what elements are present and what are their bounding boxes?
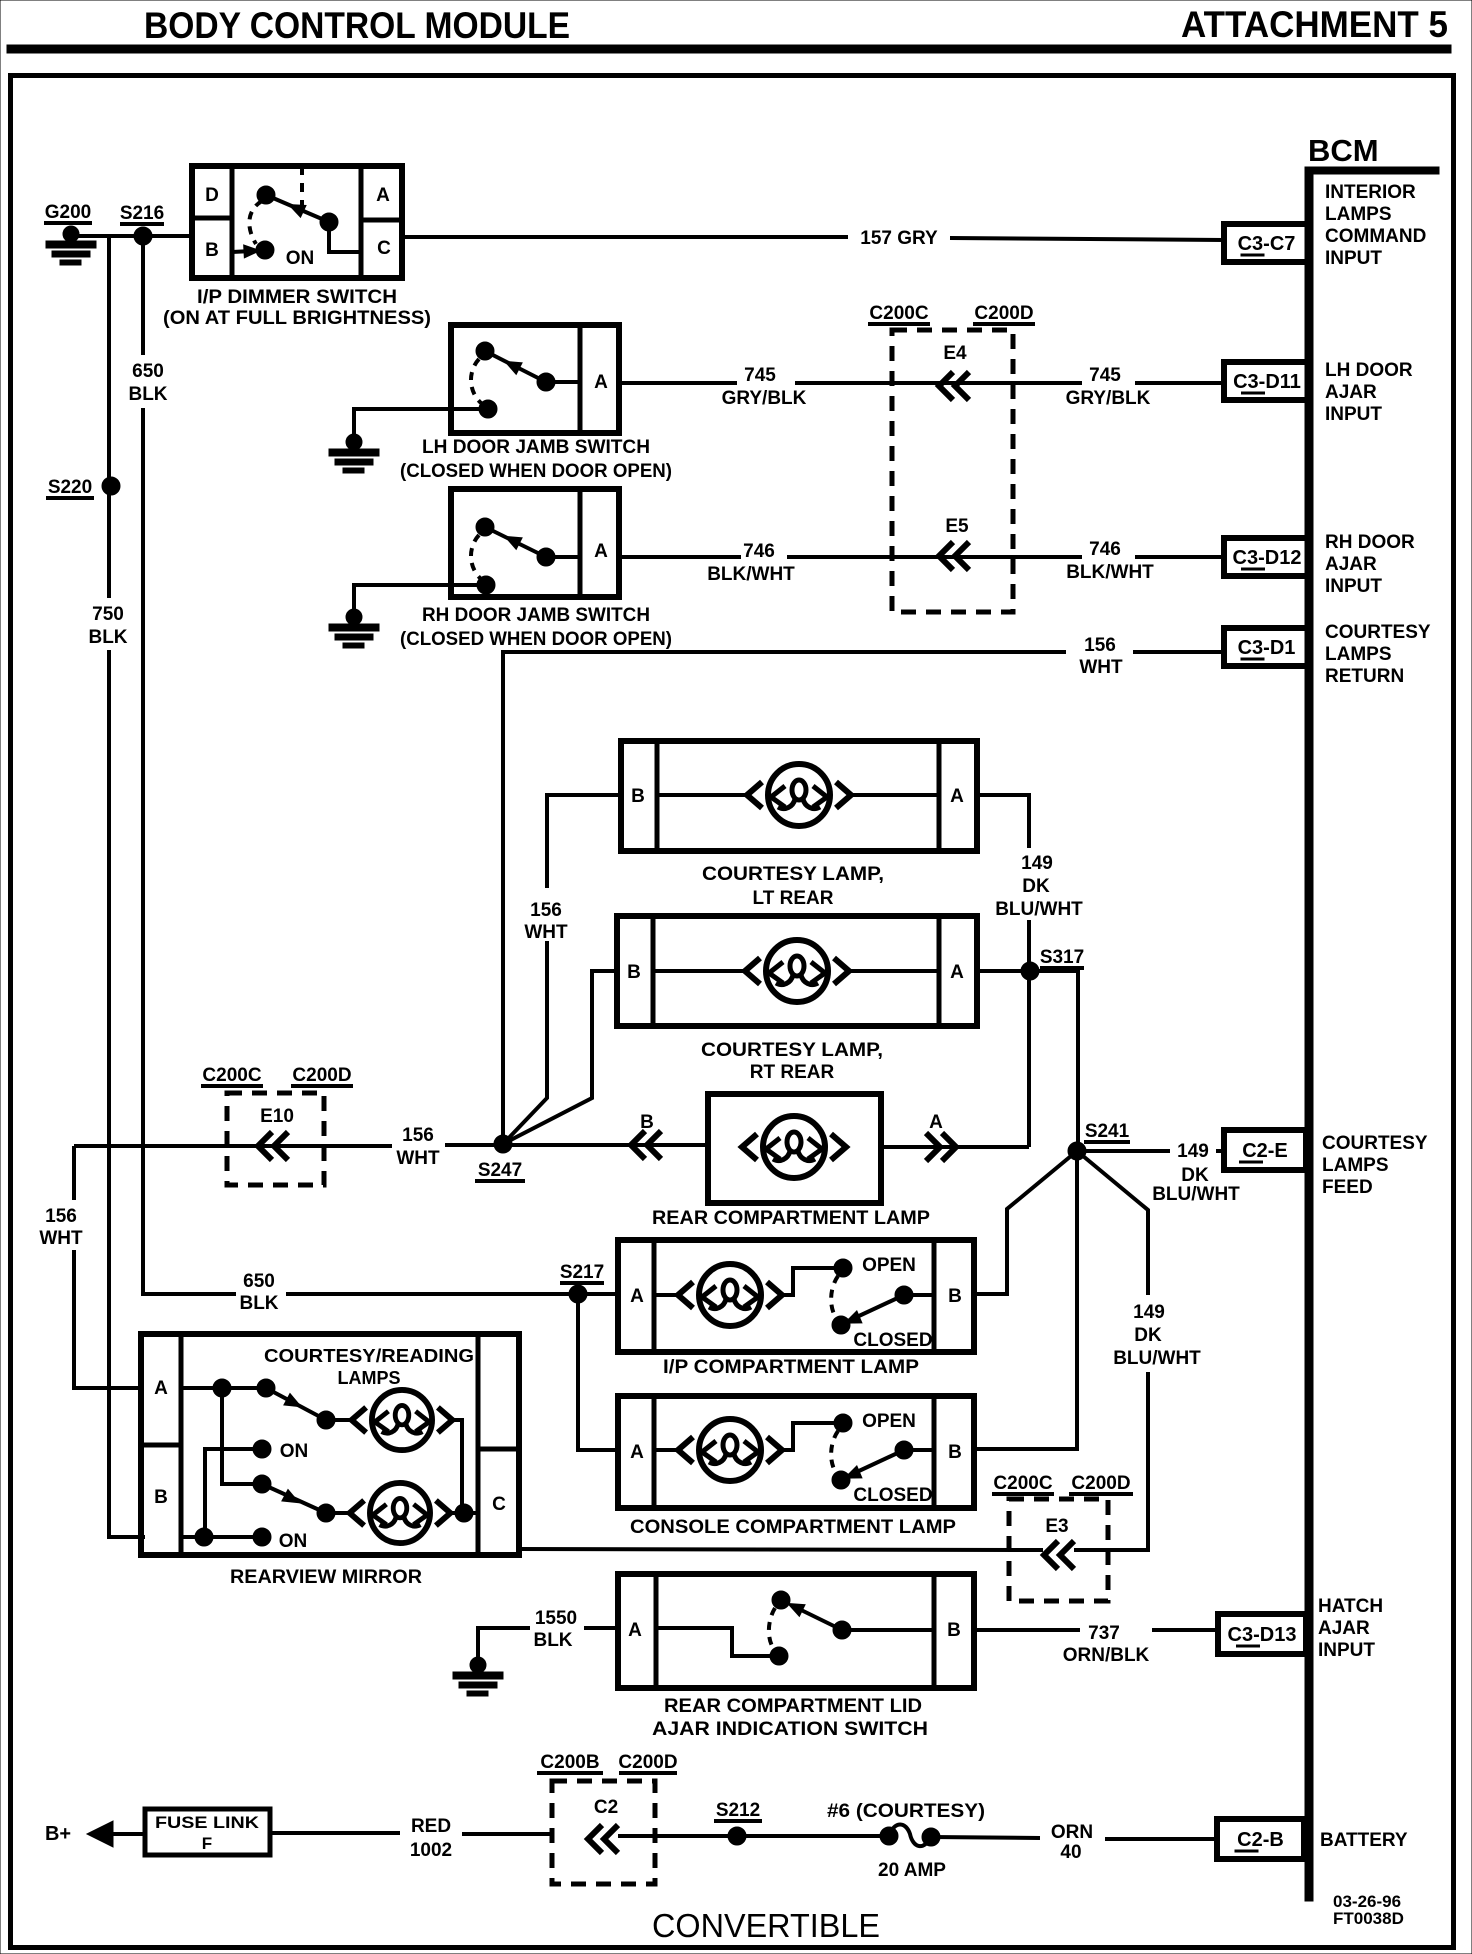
svg-text:ON: ON [279,1531,308,1552]
connector C3-D11 [1224,362,1310,400]
node S217 [569,1285,587,1303]
svg-text:WHT: WHT [1079,657,1123,678]
svg-text:C: C [377,238,391,259]
svg-text:HATCH: HATCH [1318,1596,1383,1617]
mirror internal wiring [181,1386,266,1390]
RH switch ground wire [354,585,486,610]
svg-text:C200D: C200D [618,1752,677,1773]
ground (RH door jamb) [329,609,379,648]
svg-text:ORN/BLK: ORN/BLK [1063,1645,1150,1666]
svg-text:RED: RED [411,1816,451,1837]
I/P dimmer switch [192,166,402,278]
svg-text:C2-E: C2-E [1242,1140,1288,1162]
svg-text:S317: S317 [1040,947,1084,968]
wire rear lamp A to S317 [881,1145,1029,1149]
svg-text:156: 156 [402,1125,434,1146]
wire 750 BLK vertical [107,236,111,598]
upper mirror lamp [352,1390,453,1450]
wire 650 BLK vertical [141,236,145,355]
fuse #6 (COURTESY) 20 AMP [880,1827,898,1845]
svg-text:(CLOSED WHEN DOOR OPEN): (CLOSED WHEN DOOR OPEN) [400,629,672,650]
svg-text:WHT: WHT [39,1228,83,1249]
wire 157 GRY to C3-C7 [402,235,848,239]
wire C2 to S212 [618,1834,737,1838]
connector C3-C7 [1224,224,1309,262]
wire B+ to fuse link [113,1832,145,1836]
svg-text:BLU/WHT: BLU/WHT [1152,1184,1240,1205]
wire console A to S217 [578,1294,618,1450]
svg-text:E4: E4 [943,343,967,364]
svg-text:C200C: C200C [993,1473,1052,1494]
svg-text:C2-B: C2-B [1237,1829,1284,1851]
svg-text:CONSOLE COMPARTMENT LAMP: CONSOLE COMPARTMENT LAMP [630,1517,956,1538]
svg-text:745: 745 [1089,365,1121,386]
svg-text:C200B: C200B [540,1752,599,1773]
connector C3-D12 [1224,538,1310,576]
svg-text:C3-C7: C3-C7 [1238,233,1296,255]
svg-text:C3-D1: C3-D1 [1238,637,1296,659]
arrow to B+ [87,1821,113,1847]
svg-text:REARVIEW MIRROR: REARVIEW MIRROR [230,1567,422,1588]
svg-text:(CLOSED WHEN DOOR OPEN): (CLOSED WHEN DOOR OPEN) [400,461,672,482]
svg-text:BLK: BLK [88,627,127,648]
connector C3-D13 [1218,1614,1306,1654]
lamp switch [784,1423,837,1450]
svg-text:INPUT: INPUT [1325,248,1382,269]
svg-text:GRY/BLK: GRY/BLK [1066,388,1151,409]
svg-text:S212: S212 [716,1800,760,1821]
connector C3-D1 [1224,628,1309,666]
svg-text:FUSE LINK: FUSE LINK [155,1813,260,1832]
wire RT rear B to S247 [503,971,617,1144]
ground (lid switch) [453,1657,503,1696]
svg-text:156: 156 [45,1206,77,1227]
svg-text:40: 40 [1060,1842,1081,1863]
svg-text:OPEN: OPEN [862,1411,916,1432]
svg-text:B: B [154,1487,168,1508]
wire 746 BLK/WHT [619,555,741,559]
wire 745 GRY/BLK [619,381,737,385]
svg-text:BLK/WHT: BLK/WHT [707,564,795,585]
svg-text:C200D: C200D [974,303,1033,324]
svg-text:LAMPS: LAMPS [338,1368,401,1388]
svg-text:LAMPS: LAMPS [1325,644,1392,665]
svg-text:S216: S216 [120,203,164,224]
svg-text:COMMAND: COMMAND [1325,226,1426,247]
svg-text:A: A [630,1286,644,1307]
wire 156 WHT main run [74,1144,392,1148]
svg-text:REAR COMPARTMENT LID: REAR COMPARTMENT LID [664,1696,922,1717]
svg-text:ON: ON [280,1441,309,1462]
svg-text:C: C [492,1494,506,1515]
wire S241 to I/P lamp B [974,1151,1077,1294]
svg-text:S220: S220 [48,477,92,498]
wire 1550 BLK to ground [584,1626,618,1630]
svg-text:B: B [948,1442,962,1463]
svg-text:INPUT: INPUT [1325,404,1382,425]
courtesy lamp LT rear [621,741,977,851]
LH door jamb switch [451,325,619,433]
switch contacts [656,1628,771,1656]
svg-text:1002: 1002 [410,1840,452,1861]
wire G200 to dimmer switch [71,234,192,238]
wire mirror C to E3 [519,1549,1043,1550]
svg-text:COURTESY LAMP,: COURTESY LAMP, [701,1040,883,1061]
svg-text:ORN: ORN [1051,1822,1093,1843]
node S241 [1068,1142,1086,1160]
wire RED 1002 [270,1831,400,1835]
svg-text:CONVERTIBLE: CONVERTIBLE [652,1907,880,1944]
courtesy lamp RT rear [617,916,977,1026]
lower mirror lamp [350,1483,451,1543]
svg-text:B: B [631,786,645,807]
svg-text:DK: DK [1134,1325,1162,1346]
svg-text:RH DOOR: RH DOOR [1325,532,1415,553]
svg-text:A: A [376,185,390,206]
svg-text:BLK: BLK [239,1293,278,1314]
svg-text:C2: C2 [594,1797,618,1818]
svg-text:I/P COMPARTMENT LAMP: I/P COMPARTMENT LAMP [663,1357,919,1378]
svg-text:B: B [948,1286,962,1307]
lamp symbol [653,969,744,973]
BCM module line [1305,167,1313,1901]
svg-text:B: B [205,240,219,261]
lamp symbol [657,793,746,797]
svg-text:A: A [154,1378,168,1399]
svg-text:B: B [627,962,641,983]
svg-text:C200D: C200D [1071,1473,1130,1494]
svg-text:A: A [630,1442,644,1463]
svg-text:157 GRY: 157 GRY [860,228,938,249]
svg-text:AJAR: AJAR [1325,382,1377,403]
svg-text:BCM: BCM [1308,133,1379,168]
svg-text:650: 650 [132,361,164,382]
wire RT rear A to S241 [977,971,1078,1151]
svg-text:C3-D12: C3-D12 [1233,547,1302,569]
svg-text:A: A [594,541,608,562]
svg-text:156: 156 [530,900,562,921]
svg-text:A: A [628,1620,642,1641]
svg-text:B: B [947,1620,961,1641]
svg-text:746: 746 [1089,539,1121,560]
svg-text:BLK: BLK [533,1630,572,1651]
svg-text:RETURN: RETURN [1325,666,1404,687]
svg-text:A: A [950,786,964,807]
svg-text:AJAR: AJAR [1318,1618,1370,1639]
svg-text:FEED: FEED [1322,1177,1373,1198]
svg-text:C3-D11: C3-D11 [1233,371,1301,393]
node S247 [494,1135,512,1153]
ON contacts [253,1440,271,1458]
svg-text:LH DOOR JAMB SWITCH: LH DOOR JAMB SWITCH [422,437,650,458]
dimmer switch contacts [300,166,304,213]
wire 156 WHT left vertical to mirror A [72,1146,76,1200]
svg-text:I/P DIMMER SWITCH: I/P DIMMER SWITCH [197,287,397,308]
svg-text:RT REAR: RT REAR [750,1062,835,1083]
wire 149 DK BLU/WHT from LT rear A [977,795,1029,848]
svg-text:745: 745 [744,365,776,386]
svg-text:DK: DK [1022,876,1050,897]
connector C2-E [1224,1130,1306,1170]
wire 737 ORN/BLK to C3-D13 [974,1628,1080,1632]
svg-text:650: 650 [243,1271,275,1292]
svg-text:149: 149 [1021,853,1053,874]
svg-text:A: A [929,1112,943,1133]
svg-text:ON: ON [286,248,315,269]
wire 149 to C2-E [1077,1149,1170,1153]
svg-text:WHT: WHT [524,922,568,943]
svg-text:149: 149 [1177,1141,1209,1162]
svg-text:G200: G200 [45,202,91,223]
svg-text:WHT: WHT [396,1148,440,1169]
svg-text:(ON AT FULL BRIGHTNESS): (ON AT FULL BRIGHTNESS) [163,308,431,329]
svg-text:#6 (COURTESY): #6 (COURTESY) [827,1801,985,1822]
svg-text:1550: 1550 [535,1608,577,1629]
svg-text:BLK: BLK [128,384,167,405]
svg-text:ATTACHMENT 5: ATTACHMENT 5 [1181,4,1448,45]
svg-text:REAR COMPARTMENT LAMP: REAR COMPARTMENT LAMP [652,1208,930,1229]
LH switch ground wire [354,409,488,436]
svg-text:CLOSED: CLOSED [853,1330,932,1351]
svg-text:BATTERY: BATTERY [1320,1830,1408,1851]
svg-text:E10: E10 [260,1106,294,1127]
svg-text:LAMPS: LAMPS [1322,1155,1389,1176]
svg-text:A: A [594,372,608,393]
lamp symbol [654,1293,678,1297]
svg-text:BODY CONTROL MODULE: BODY CONTROL MODULE [144,5,570,46]
svg-text:RH DOOR JAMB SWITCH: RH DOOR JAMB SWITCH [422,605,650,626]
svg-text:FT0038D: FT0038D [1333,1909,1404,1928]
svg-text:C3-D13: C3-D13 [1228,1624,1297,1646]
svg-text:OPEN: OPEN [862,1255,916,1276]
rear compartment lamp [708,1094,881,1203]
svg-text:BLK/WHT: BLK/WHT [1066,562,1154,583]
svg-text:C200C: C200C [202,1065,261,1086]
svg-text:CLOSED: CLOSED [853,1485,932,1506]
RH door jamb switch [451,489,619,597]
svg-text:E3: E3 [1045,1516,1068,1537]
svg-text:INPUT: INPUT [1325,576,1382,597]
svg-text:B+: B+ [45,1823,71,1845]
svg-text:INTERIOR: INTERIOR [1325,182,1416,203]
svg-text:AJAR: AJAR [1325,554,1377,575]
svg-text:S217: S217 [560,1262,604,1283]
ground (LH door jamb) [329,434,379,473]
svg-text:COURTESY/READING: COURTESY/READING [264,1346,474,1366]
lamp switch [784,1268,837,1295]
fuse link F [145,1809,270,1855]
svg-text:A: A [950,962,964,983]
svg-text:AJAR INDICATION SWITCH: AJAR INDICATION SWITCH [652,1719,928,1740]
svg-text:746: 746 [743,541,775,562]
wire ORN 40 to C2-B [931,1837,1040,1838]
I/P compartment lamp [618,1240,974,1352]
lamp symbol [654,1448,678,1452]
svg-text:737: 737 [1088,1623,1120,1644]
svg-text:COURTESY: COURTESY [1322,1133,1428,1154]
svg-text:F: F [202,1834,212,1853]
svg-text:C200C: C200C [869,303,928,324]
wire S212 to fuse [737,1834,889,1838]
svg-text:DK: DK [1181,1165,1209,1186]
wire LT rear B to S247 [547,795,621,888]
wire 156 WHT courtesy lamps return [503,652,1066,1144]
svg-text:S247: S247 [478,1160,522,1181]
svg-text:C200D: C200D [292,1065,351,1086]
svg-text:GRY/BLK: GRY/BLK [722,388,807,409]
rearview mirror assembly [141,1334,519,1555]
svg-text:LAMPS: LAMPS [1325,204,1392,225]
svg-text:COURTESY LAMP,: COURTESY LAMP, [702,864,884,885]
connector C2-B [1217,1819,1304,1859]
svg-text:E5: E5 [945,516,969,537]
svg-text:LH DOOR: LH DOOR [1325,360,1413,381]
wire S241 to console lamp B [974,1151,1077,1449]
svg-text:149: 149 [1133,1302,1165,1323]
svg-text:20 AMP: 20 AMP [878,1860,946,1881]
wire 650 BLK horizontal to S217 [286,1292,618,1296]
console compartment lamp [618,1396,974,1508]
header rule [7,45,1451,53]
rear compartment lid ajar indication switch [618,1574,974,1688]
svg-text:BLU/WHT: BLU/WHT [1113,1348,1201,1369]
svg-text:S241: S241 [1085,1121,1130,1142]
svg-text:156: 156 [1084,635,1116,656]
svg-text:COURTESY: COURTESY [1325,622,1431,643]
svg-text:INPUT: INPUT [1318,1640,1375,1661]
svg-text:750: 750 [92,604,124,625]
svg-text:BLU/WHT: BLU/WHT [995,899,1083,920]
svg-text:LT REAR: LT REAR [753,888,834,909]
svg-text:D: D [205,185,219,206]
wire 149 DK BLU/WHT to E3 [1077,1151,1148,1295]
